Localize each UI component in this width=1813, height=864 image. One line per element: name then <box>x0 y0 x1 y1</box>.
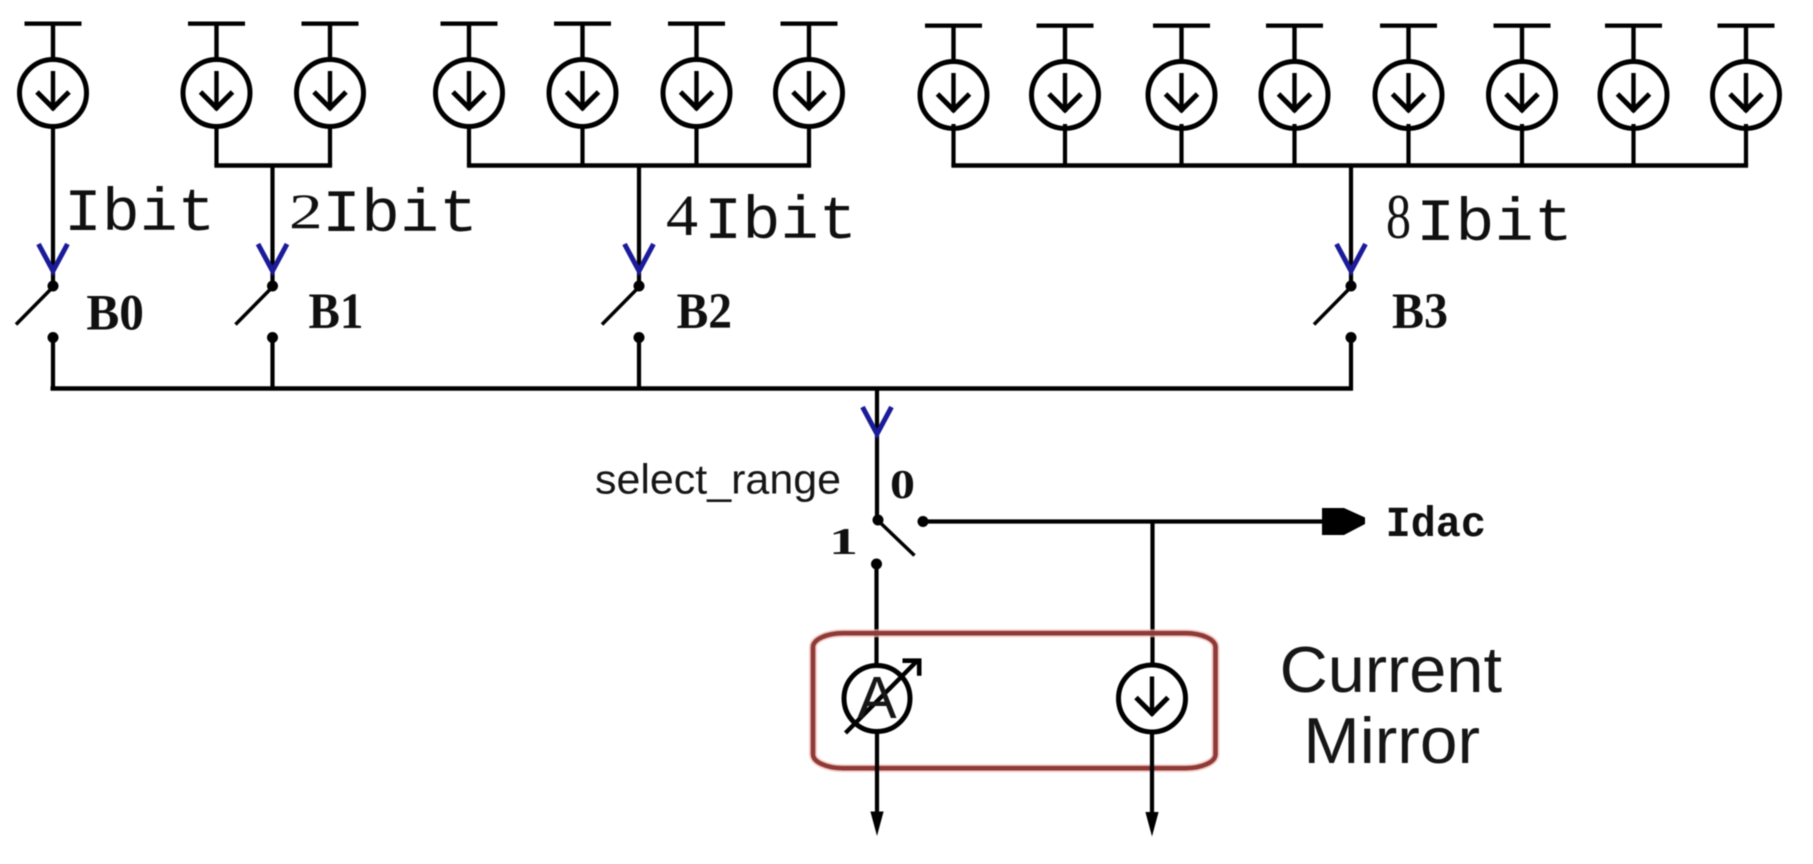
svg-text:B1: B1 <box>309 284 364 340</box>
svg-text:Current: Current <box>1280 633 1502 706</box>
svg-text:Ibit: Ibit <box>1416 191 1573 259</box>
svg-text:Mirror: Mirror <box>1303 704 1480 777</box>
svg-text:0: 0 <box>890 461 915 507</box>
svg-text:Ibit: Ibit <box>704 189 857 257</box>
svg-text:Idac: Idac <box>1386 500 1486 549</box>
svg-text:select_range: select_range <box>595 456 841 503</box>
svg-text:Ibit: Ibit <box>322 182 478 250</box>
svg-text:B3: B3 <box>1392 284 1448 340</box>
svg-text:B2: B2 <box>677 284 732 340</box>
svg-text:4: 4 <box>666 183 698 248</box>
svg-text:A: A <box>857 665 897 731</box>
svg-text:B0: B0 <box>86 285 144 341</box>
svg-text:1: 1 <box>829 521 858 563</box>
svg-text:2: 2 <box>289 183 323 239</box>
svg-text:8: 8 <box>1386 182 1411 252</box>
svg-text:Ibit: Ibit <box>64 181 215 249</box>
